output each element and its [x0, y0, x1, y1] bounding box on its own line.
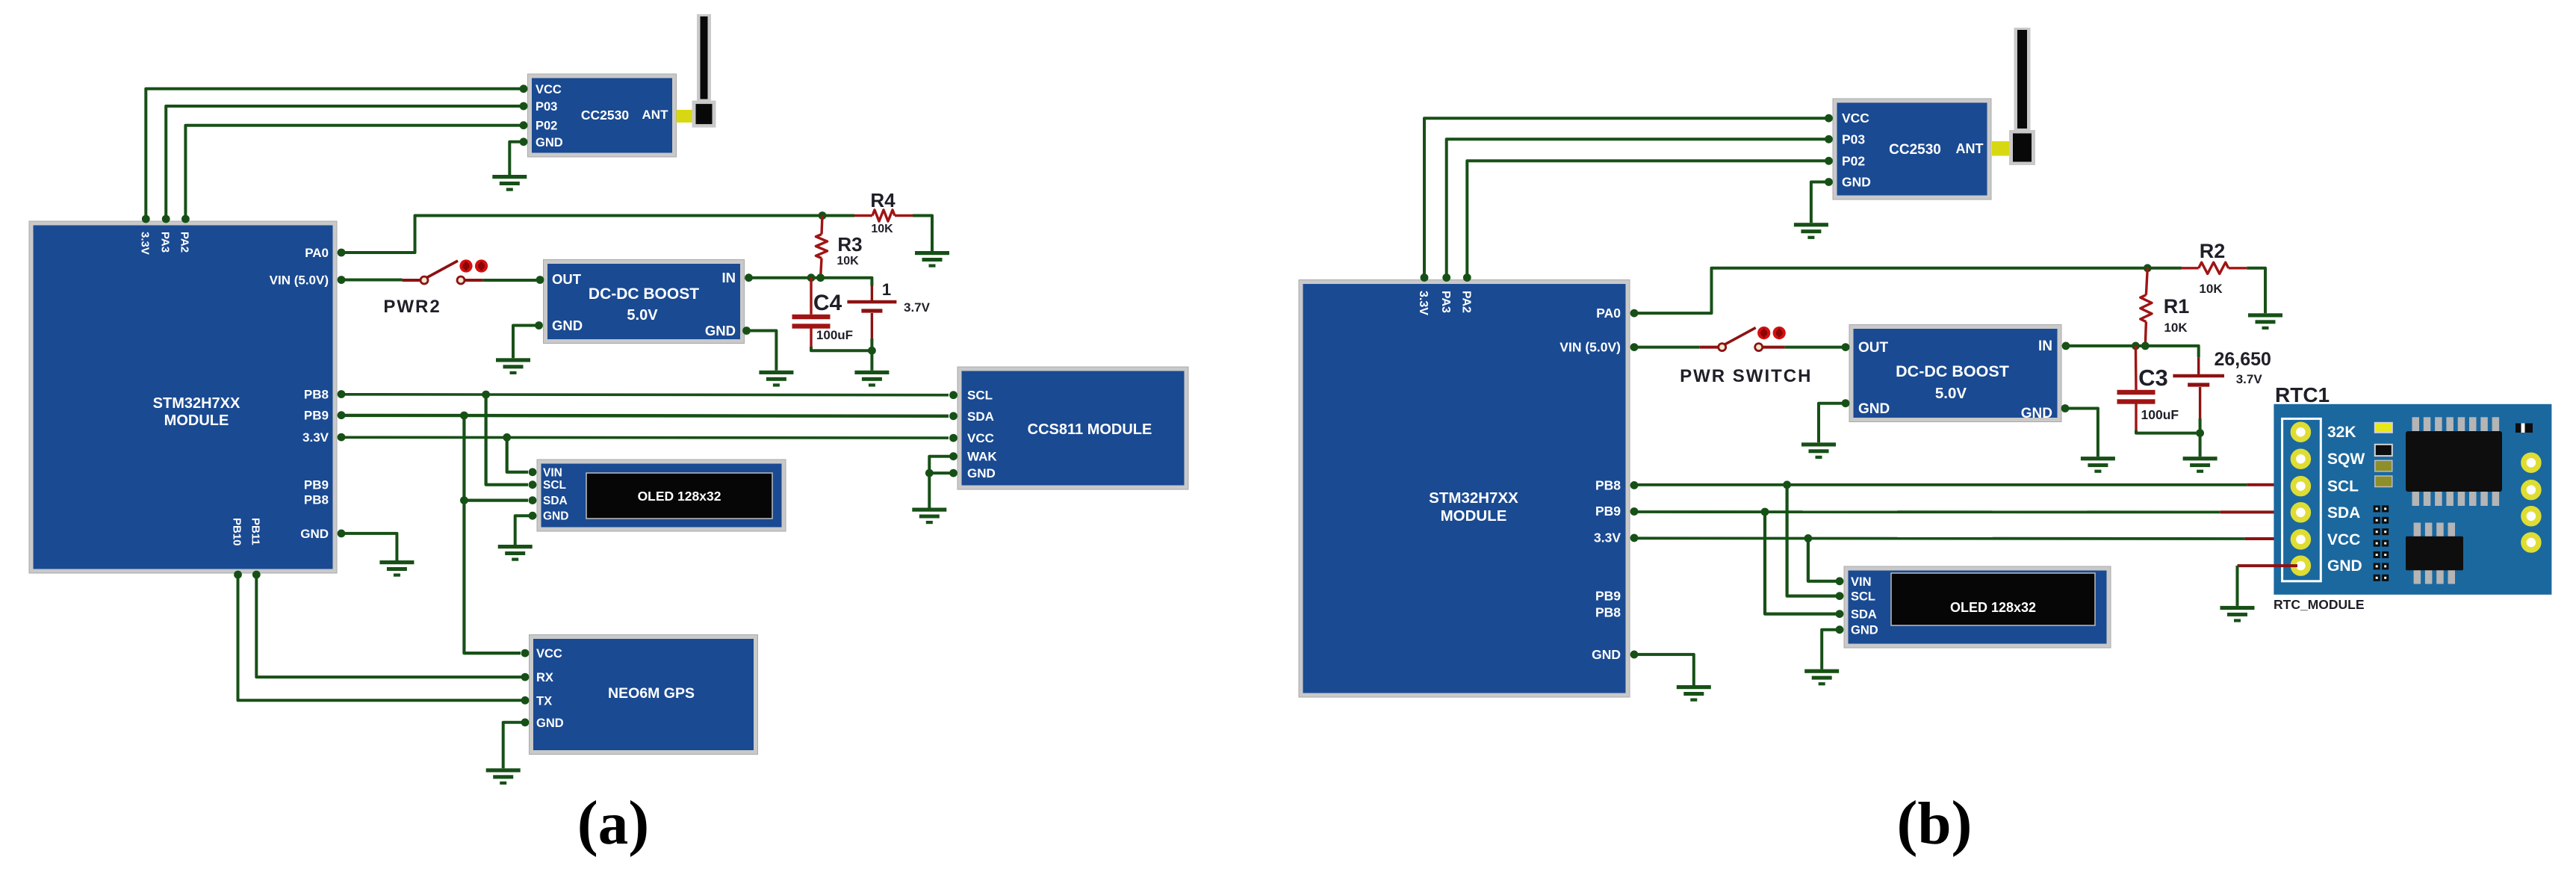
svg-text:ANT: ANT — [642, 108, 669, 122]
svg-text:10K: 10K — [2164, 321, 2188, 335]
node NEO6M VCC pin (a) — [521, 649, 530, 658]
node NEO6M RX pin (a) — [521, 673, 530, 681]
wire STM32 GND (a) — [341, 534, 397, 560]
wire PB8 branch to OLED SCL (a) — [486, 395, 528, 485]
battery top lead (b) — [2197, 357, 2200, 374]
node CCS811 SDA pin (a) — [949, 412, 958, 420]
pad RTC SDA (b) — [2293, 505, 2308, 520]
svg-text:PWR SWITCH: PWR SWITCH — [1680, 366, 1812, 386]
resistor R3 (a) — [816, 235, 827, 259]
wire red stub left of switch (a) — [403, 279, 420, 282]
wire red stub right of switch (b) — [1763, 346, 1784, 349]
svg-text:VIN (5.0V): VIN (5.0V) — [1559, 340, 1621, 355]
svg-text:PA0: PA0 — [305, 246, 329, 260]
svg-text:WAK: WAK — [967, 450, 997, 464]
wire PB11 to NEO6M RX (a) — [256, 575, 525, 677]
pad RTC SCL (b) — [2293, 479, 2308, 494]
svg-text:PB8: PB8 — [1595, 477, 1621, 492]
svg-text:STM32H7XX: STM32H7XX — [153, 395, 240, 412]
wire STM32 GND (b) — [1634, 655, 1694, 685]
wire PA0 net to R2 (b) — [1634, 268, 2182, 313]
svg-text:3.3V: 3.3V — [1594, 530, 1621, 545]
svg-text:PA3: PA3 — [158, 232, 171, 253]
battery top lead (a) — [871, 286, 873, 300]
svg-text:PB10: PB10 — [231, 518, 243, 546]
CC2530 body (b) — [1833, 99, 1991, 200]
node NEO6M GND pin (a) — [521, 718, 530, 726]
wire PB8 net to CCS811 SCL (a) — [341, 393, 949, 397]
node CC2530 P02 pin (a) — [520, 121, 528, 129]
svg-text:GND: GND — [536, 136, 563, 149]
pad RTC right (b) — [2524, 509, 2539, 524]
node CC2530 VCC pin (a) — [520, 84, 528, 93]
ground DC-DC left (a) — [496, 358, 530, 374]
svg-text:VIN: VIN — [1851, 575, 1872, 589]
wire CCS811 GND to ground (a) — [929, 473, 953, 507]
svg-text:VCC: VCC — [536, 647, 562, 661]
wire PB9 branch to OLED SDA (b) — [1765, 512, 1840, 614]
node DC-DC IN pin (a) — [745, 273, 753, 282]
node PB9 pin dot (a) — [338, 411, 346, 419]
wire C4 bottom to battery bottom (a) — [811, 347, 872, 350]
junction battery bottom (b) — [2196, 429, 2204, 437]
junction PB8/OLED SCL (b) — [1783, 480, 1791, 489]
node DC-DC GND left pin (a) — [535, 321, 543, 330]
junction OLED SDA (a) — [460, 496, 468, 504]
node DC-DC GND right pin (b) — [2061, 404, 2070, 412]
DC-DC body (a) — [544, 260, 745, 344]
svg-text:GND: GND — [1851, 624, 1878, 637]
capacitor C3 top lead (b) — [2135, 346, 2138, 390]
svg-text:GND: GND — [705, 323, 736, 338]
node CC2530 P03 pin (b) — [1825, 135, 1833, 143]
svg-text:VIN (5.0V): VIN (5.0V) — [270, 273, 329, 288]
svg-text:PB11: PB11 — [249, 518, 262, 545]
wire PB9 net to RTC SDA (b) — [1634, 510, 2220, 513]
OLED body (a) — [537, 460, 786, 531]
svg-text:PB9: PB9 — [304, 409, 329, 423]
battery 26,650 3.7V (b) — [2173, 376, 2224, 385]
junction PB9/OLED SDA (b) — [1761, 508, 1769, 516]
ground STM32 (b) — [1677, 685, 1711, 702]
IC DS3231 big chip (b) — [2406, 417, 2502, 506]
battery bottom lead (a) — [871, 313, 873, 340]
wire battery bottom (a) — [870, 338, 873, 350]
SMD resistor 1 on RTC (b) — [2375, 460, 2392, 471]
svg-text:SQW: SQW — [2327, 451, 2365, 468]
svg-text:DC-DC BOOST: DC-DC BOOST — [589, 285, 699, 303]
wire C3 bottom to battery bottom (b) — [2136, 430, 2200, 433]
junction R1 bottom (b) — [2141, 342, 2150, 350]
wire VIN to switch (a) — [341, 279, 403, 282]
ground CC2530 (a) — [492, 175, 527, 191]
svg-text:VIN: VIN — [543, 466, 562, 479]
junction R3 bottom (a) — [816, 273, 825, 282]
node DC-DC GND left pin (b) — [1842, 399, 1850, 407]
ground RTC (b) — [2220, 606, 2255, 622]
svg-text:26,650: 26,650 — [2214, 349, 2271, 370]
svg-text:100uF: 100uF — [2141, 407, 2179, 422]
module RTC1 RTC_MODULE board (b) — [2274, 404, 2551, 595]
wire battery to ground (b) — [2199, 433, 2202, 457]
svg-text:1: 1 — [882, 280, 891, 299]
wire 3.3V red stub at RTC (b) — [2245, 537, 2297, 540]
node 3.3V pin dot (a) — [338, 433, 346, 442]
svg-text:VCC: VCC — [1842, 111, 1869, 126]
antenna ANT1 (a) — [677, 14, 716, 128]
wire PB9 red stub at RTC (b) — [2220, 510, 2297, 513]
svg-text:10K: 10K — [871, 223, 893, 235]
svg-text:GND: GND — [967, 466, 996, 480]
module body STM32H7XX (b) — [1299, 280, 1630, 698]
node PA3 top pin dot (b) — [1442, 273, 1450, 282]
junction 3.3V/OLED VIN (b) — [1804, 534, 1813, 542]
svg-text:3.7V: 3.7V — [904, 300, 931, 315]
node GND pin dot (b) — [1630, 651, 1639, 659]
wire R4 right lead to ground (a) — [913, 216, 932, 252]
CC2530 body (a) — [528, 74, 677, 157]
NEO6M body (a) — [530, 635, 758, 755]
node PB8 pin dot (b) — [1630, 481, 1639, 489]
svg-text:GND: GND — [2021, 406, 2052, 421]
resistor R3 lead top (a) — [822, 216, 822, 235]
resistor R4 lead right (a) — [895, 214, 913, 217]
node 3.3V pin dot (b) — [1630, 534, 1639, 542]
OLED body (b) — [1844, 566, 2111, 648]
svg-text:CC2530: CC2530 — [581, 108, 629, 123]
wire PB9 branch to OLED SDA and NEO6M VCC (a) — [464, 415, 521, 653]
svg-text:TX: TX — [536, 694, 552, 708]
node NEO6M TX pin (a) — [521, 696, 530, 705]
ground DC-DC left (b) — [1801, 442, 1836, 459]
switch PWR2 (a) — [420, 259, 488, 284]
node CC2530 P02 pin (b) — [1825, 157, 1833, 165]
svg-text:PB8: PB8 — [304, 388, 329, 402]
node PB11 bottom pin dot (a) — [252, 571, 261, 579]
node CCS811 GND pin (a) — [949, 469, 958, 477]
CCS811 body (a) — [958, 367, 1188, 489]
svg-text:ANT: ANT — [1956, 141, 1984, 156]
SMD LED on RTC (b) — [2375, 423, 2392, 433]
wire NEO6M GND (a) — [503, 723, 525, 769]
svg-text:SCL: SCL — [967, 389, 993, 403]
svg-text:10K: 10K — [837, 255, 859, 267]
svg-text:GND: GND — [536, 717, 564, 730]
svg-text:R1: R1 — [2164, 295, 2190, 318]
IC EEPROM small chip (b) — [2406, 523, 2463, 584]
svg-text:PA2: PA2 — [179, 232, 191, 253]
resistor R2 (b) — [2199, 262, 2229, 273]
wire CCS811 WAK to GND (a) — [929, 457, 953, 473]
svg-text:3.3V: 3.3V — [139, 232, 152, 255]
resistor R1 lead bottom (b) — [2145, 322, 2146, 346]
node OLED SCL pin (b) — [1836, 592, 1844, 600]
wire switch to DC-DC OUT (a) — [482, 279, 536, 282]
node CC2530 VCC pin (b) — [1825, 114, 1833, 123]
node OLED VIN pin (b) — [1836, 577, 1844, 585]
pad RTC right (b) — [2524, 455, 2539, 470]
resistor R4 (a) — [872, 210, 895, 221]
ground battery (b) — [2183, 457, 2217, 473]
svg-text:GND: GND — [1842, 175, 1871, 190]
svg-text:PB9: PB9 — [1595, 504, 1621, 519]
module body STM32H7XX (a) — [29, 221, 337, 573]
svg-text:10K: 10K — [2199, 282, 2223, 296]
resistor R1 lead top (b) — [2146, 268, 2147, 295]
ground R4 (a) — [915, 251, 949, 267]
ground R2 (b) — [2248, 313, 2282, 330]
node OLED SDA pin (b) — [1836, 610, 1844, 618]
node CC2530 P03 pin (a) — [520, 102, 528, 111]
svg-text:SDA: SDA — [1851, 608, 1877, 622]
svg-text:PWR2: PWR2 — [383, 297, 441, 317]
wire OLED GND (a) — [515, 516, 533, 545]
svg-text:P02: P02 — [536, 120, 557, 133]
ground CCS811 (a) — [912, 508, 946, 525]
node PB10 bottom pin dot (a) — [234, 571, 242, 579]
node DC-DC IN pin (b) — [2062, 342, 2070, 350]
node CCS811 WAK pin (a) — [949, 452, 958, 460]
wire red stub right of switch (a) — [465, 279, 482, 282]
ground STM32 (a) — [379, 560, 414, 577]
capacitor C4 top lead (a) — [810, 278, 812, 315]
svg-text:3.3V: 3.3V — [302, 430, 329, 445]
svg-text:SCL: SCL — [1851, 590, 1875, 604]
svg-text:IN: IN — [2038, 338, 2052, 354]
wire battery bottom (b) — [2199, 418, 2202, 433]
svg-text:C3: C3 — [2138, 365, 2168, 391]
node OLED GND pin (b) — [1836, 625, 1844, 634]
svg-text:RX: RX — [536, 671, 553, 684]
svg-text:SDA: SDA — [543, 495, 568, 507]
svg-text:3.3V: 3.3V — [1417, 291, 1430, 315]
junction C3 top (b) — [2132, 342, 2140, 350]
junction PB8/OLED SCL (a) — [482, 391, 490, 399]
wire PA2 to CC2530 P02 (b) — [1467, 161, 1828, 277]
svg-text:IN: IN — [722, 270, 736, 285]
capacitor C4 (a) — [792, 315, 831, 329]
wire 3.3V branch to OLED VIN (b) — [1808, 538, 1840, 581]
wire DC-DC IN net (b) — [2066, 346, 2199, 357]
node 3.3V top pin dot (a) — [142, 215, 150, 223]
svg-text:C4: C4 — [813, 291, 842, 315]
node DC-DC OUT pin (a) — [536, 276, 544, 284]
resistor R1 (b) — [2141, 295, 2152, 322]
svg-text:3.7V: 3.7V — [2236, 372, 2263, 386]
wire RTC GND to ground (b) — [2238, 564, 2298, 567]
junction C4 top (a) — [807, 273, 816, 282]
svg-text:32K: 32K — [2327, 424, 2356, 441]
wire CC2530 GND (a) — [509, 142, 524, 175]
capacitor C3 bottom lead (b) — [2135, 403, 2137, 432]
svg-text:VCC: VCC — [2327, 531, 2360, 548]
pad RTC GND (b) — [2293, 558, 2308, 573]
node OLED SCL pin (a) — [529, 480, 537, 489]
node PA0 pin dot (b) — [1630, 309, 1639, 318]
pad RTC right (b) — [2524, 535, 2539, 550]
pad RTC VCC (b) — [2293, 532, 2308, 547]
node PA2 top pin dot (b) — [1463, 273, 1471, 282]
node OLED SDA pin (a) — [529, 496, 537, 504]
svg-text:SCL: SCL — [543, 479, 566, 492]
svg-text:DC-DC BOOST: DC-DC BOOST — [1896, 362, 2009, 380]
svg-text:OLED 128x32: OLED 128x32 — [1950, 600, 2036, 615]
svg-text:OUT: OUT — [552, 271, 582, 287]
SMD resistor 2 on RTC (b) — [2375, 476, 2392, 487]
antenna ANT1 (b) — [1992, 28, 2035, 165]
wire PB10 to NEO6M TX (a) — [238, 575, 526, 700]
wire DC-DC IN net (a) — [749, 278, 872, 286]
ground CC2530 (b) — [1794, 223, 1828, 239]
resistor R3 lead bottom (a) — [821, 259, 822, 278]
wire PA3 to CC2530 P03 (b) — [1447, 139, 1828, 277]
junction PB9/OLED SDA branch (a) — [460, 412, 468, 420]
wire DC-DC GND left (b) — [1819, 403, 1846, 443]
svg-text:P03: P03 — [1842, 132, 1865, 146]
pad RTC SQW (b) — [2293, 451, 2308, 466]
node OLED VIN pin (a) — [529, 468, 537, 476]
svg-text:PA2: PA2 — [1460, 291, 1473, 313]
ground OLED (a) — [498, 545, 533, 561]
wire OLED SDA stub (a) — [464, 498, 528, 501]
wire PA0 net to R4 (a) — [341, 216, 854, 253]
wire DC-DC GND right (a) — [747, 331, 777, 371]
wire DC-DC GND right (b) — [2065, 409, 2098, 457]
node PA3 top pin dot (a) — [162, 215, 170, 223]
wire DC-DC GND left (a) — [513, 326, 539, 359]
wire 3.3V net to CCS811 VCC (a) — [341, 436, 949, 439]
svg-text:GND: GND — [1592, 647, 1621, 662]
svg-text:STM32H7XX: STM32H7XX — [1429, 489, 1518, 507]
svg-text:100uF: 100uF — [816, 328, 853, 342]
junction PA0/R3/R4 (a) — [819, 211, 827, 220]
capacitor C3 (b) — [2117, 390, 2156, 404]
svg-text:GND: GND — [552, 318, 583, 333]
wire 3.3V to CC2530 VCC (a) — [146, 89, 523, 219]
battery bottom lead (b) — [2199, 387, 2201, 420]
svg-text:SDA: SDA — [967, 409, 994, 424]
svg-text:MODULE: MODULE — [164, 412, 229, 429]
svg-text:RTC1: RTC1 — [2275, 383, 2330, 406]
resistor R2 lead left (b) — [2182, 267, 2199, 269]
ground OLED (b) — [1804, 669, 1839, 686]
wire PB8 red stub at RTC (b) — [2247, 483, 2297, 486]
svg-text:PB8: PB8 — [1595, 604, 1621, 619]
wire PB8 net to RTC SCL (b) — [1634, 483, 2247, 486]
resistor R4 lead left (a) — [854, 214, 872, 217]
wire PA3 to CC2530 P03 (a) — [166, 106, 523, 219]
node 3.3V top pin dot (b) — [1421, 273, 1429, 282]
svg-text:P02: P02 — [1842, 153, 1865, 168]
svg-text:R4: R4 — [870, 189, 896, 211]
node PA2 top pin dot (a) — [181, 215, 190, 223]
node OLED GND pin (a) — [529, 512, 537, 520]
ground battery (a) — [854, 371, 889, 387]
junction battery bottom (a) — [868, 347, 876, 355]
header footprint on RTC (b) — [2374, 505, 2389, 581]
ground DC-DC right (a) — [759, 371, 793, 387]
wire 3.3V to CC2530 VCC (b) — [1424, 118, 1828, 277]
node DC-DC GND right pin (a) — [742, 327, 751, 335]
node VIN pin dot (b) — [1630, 343, 1639, 351]
wire 3.3V branch to OLED VIN (a) — [507, 437, 528, 472]
svg-text:GND: GND — [2327, 557, 2362, 575]
node CC2530 GND pin (b) — [1825, 178, 1833, 186]
wire CC2530 GND (b) — [1811, 182, 1829, 223]
wire switch to DC-DC OUT (b) — [1784, 346, 1843, 349]
pad RTC 32K (b) — [2293, 424, 2308, 439]
junction 3.3V/OLED VIN (a) — [503, 433, 511, 442]
svg-text:NEO6M GPS: NEO6M GPS — [608, 685, 695, 702]
wire OLED GND (b) — [1822, 630, 1840, 669]
node PA0 pin dot (a) — [338, 249, 346, 257]
svg-text:5.0V: 5.0V — [1935, 385, 1967, 402]
junction PA0/R1/R2 (b) — [2144, 264, 2152, 272]
svg-text:PB8: PB8 — [304, 493, 329, 507]
node VIN pin dot (a) — [338, 276, 346, 284]
svg-text:CC2530: CC2530 — [1889, 142, 1941, 158]
pad RTC right (b) — [2524, 483, 2539, 498]
svg-text:PA3: PA3 — [1439, 291, 1452, 313]
svg-text:RTC_MODULE: RTC_MODULE — [2274, 597, 2365, 612]
DC-DC body (b) — [1849, 325, 2061, 422]
wire PB8 branch to OLED SCL (b) — [1787, 485, 1840, 596]
wire R2 right lead to ground (b) — [2247, 268, 2265, 314]
svg-text:PB9: PB9 — [304, 477, 329, 492]
node CCS811 VCC pin (a) — [949, 434, 958, 442]
svg-text:PB9: PB9 — [1595, 589, 1621, 604]
wire battery to ground (a) — [870, 350, 873, 371]
svg-text:OUT: OUT — [1858, 340, 1889, 356]
svg-text:R2: R2 — [2200, 240, 2226, 262]
SMD component black on RTC (b) — [2375, 445, 2392, 456]
node DC-DC OUT pin (b) — [1842, 343, 1850, 351]
node GND pin dot (a) — [338, 530, 346, 538]
svg-text:R3: R3 — [837, 233, 862, 256]
svg-text:P03: P03 — [536, 100, 557, 114]
battery 1 3.7V (a) — [847, 302, 896, 311]
node CC2530 GND pin (a) — [520, 137, 528, 146]
node CCS811 SCL pin (a) — [949, 391, 958, 399]
wire VIN to switch (b) — [1634, 346, 1700, 349]
ground NEO6M (a) — [486, 768, 521, 785]
switch PWR SWITCH (b) — [1719, 327, 1786, 351]
svg-text:MODULE: MODULE — [1441, 507, 1507, 525]
svg-text:GND: GND — [543, 510, 568, 523]
svg-text:CCS811 MODULE: CCS811 MODULE — [1028, 421, 1152, 438]
wire PA2 to CC2530 P02 (a) — [185, 126, 523, 219]
junction CCS811 GND (a) — [925, 469, 934, 477]
svg-text:SCL: SCL — [2327, 478, 2359, 495]
svg-text:SDA: SDA — [2327, 504, 2360, 522]
capacitor C4 bottom lead (a) — [810, 328, 812, 348]
wire red stub left of switch (b) — [1700, 346, 1718, 349]
wire PB9 net to CCS811 SDA (a) — [341, 414, 949, 418]
ground DC-DC right (b) — [2081, 457, 2115, 473]
svg-text:OLED 128x32: OLED 128x32 — [638, 489, 721, 504]
svg-text:PA0: PA0 — [1596, 306, 1621, 321]
svg-text:GND: GND — [1858, 401, 1890, 417]
svg-text:VCC: VCC — [967, 431, 994, 445]
svg-text:VCC: VCC — [536, 83, 562, 96]
SMD component top right on RTC (b) — [2516, 424, 2533, 433]
node PB9 pin dot (b) — [1630, 507, 1639, 516]
node PB8 pin dot (a) — [338, 390, 346, 398]
resistor R2 lead right (b) — [2229, 267, 2247, 269]
svg-text:GND: GND — [300, 527, 329, 541]
svg-text:(a): (a) — [577, 788, 649, 858]
wire 3.3V net to RTC VCC (b) — [1634, 536, 2245, 540]
